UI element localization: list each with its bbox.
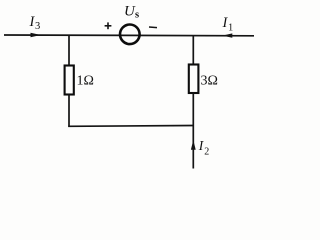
svg-text:s: s: [135, 10, 139, 21]
arrow for current I3 (pointing right on top-left wire): [31, 33, 41, 38]
wire: left branch upper vertical: [68, 35, 70, 67]
svg-text:1: 1: [228, 22, 233, 33]
svg-text:2: 2: [204, 147, 209, 158]
wire: bottom horizontal: [68, 125, 193, 128]
wire: top horizontal from left edge to right end: [4, 34, 254, 37]
plus polarity mark: [105, 25, 112, 27]
arrow for current I1 (pointing left on top-right wire): [222, 33, 232, 37]
svg-text:3Ω: 3Ω: [201, 74, 218, 89]
voltage source U_s (circle on top wire): [120, 25, 140, 45]
wire: right branch lower vertical down to I2 lead: [192, 93, 194, 169]
wire: right branch upper vertical: [192, 36, 194, 66]
arrow for current I2 (pointing up): [191, 140, 196, 150]
minus polarity mark: [149, 26, 157, 29]
resistor R2 3-ohm (rectangle): [189, 65, 199, 94]
svg-text:3: 3: [35, 21, 40, 32]
wire: left branch lower vertical: [68, 94, 70, 127]
resistor R1 1-ohm (rectangle): [65, 66, 74, 95]
svg-text:1Ω: 1Ω: [77, 74, 94, 89]
